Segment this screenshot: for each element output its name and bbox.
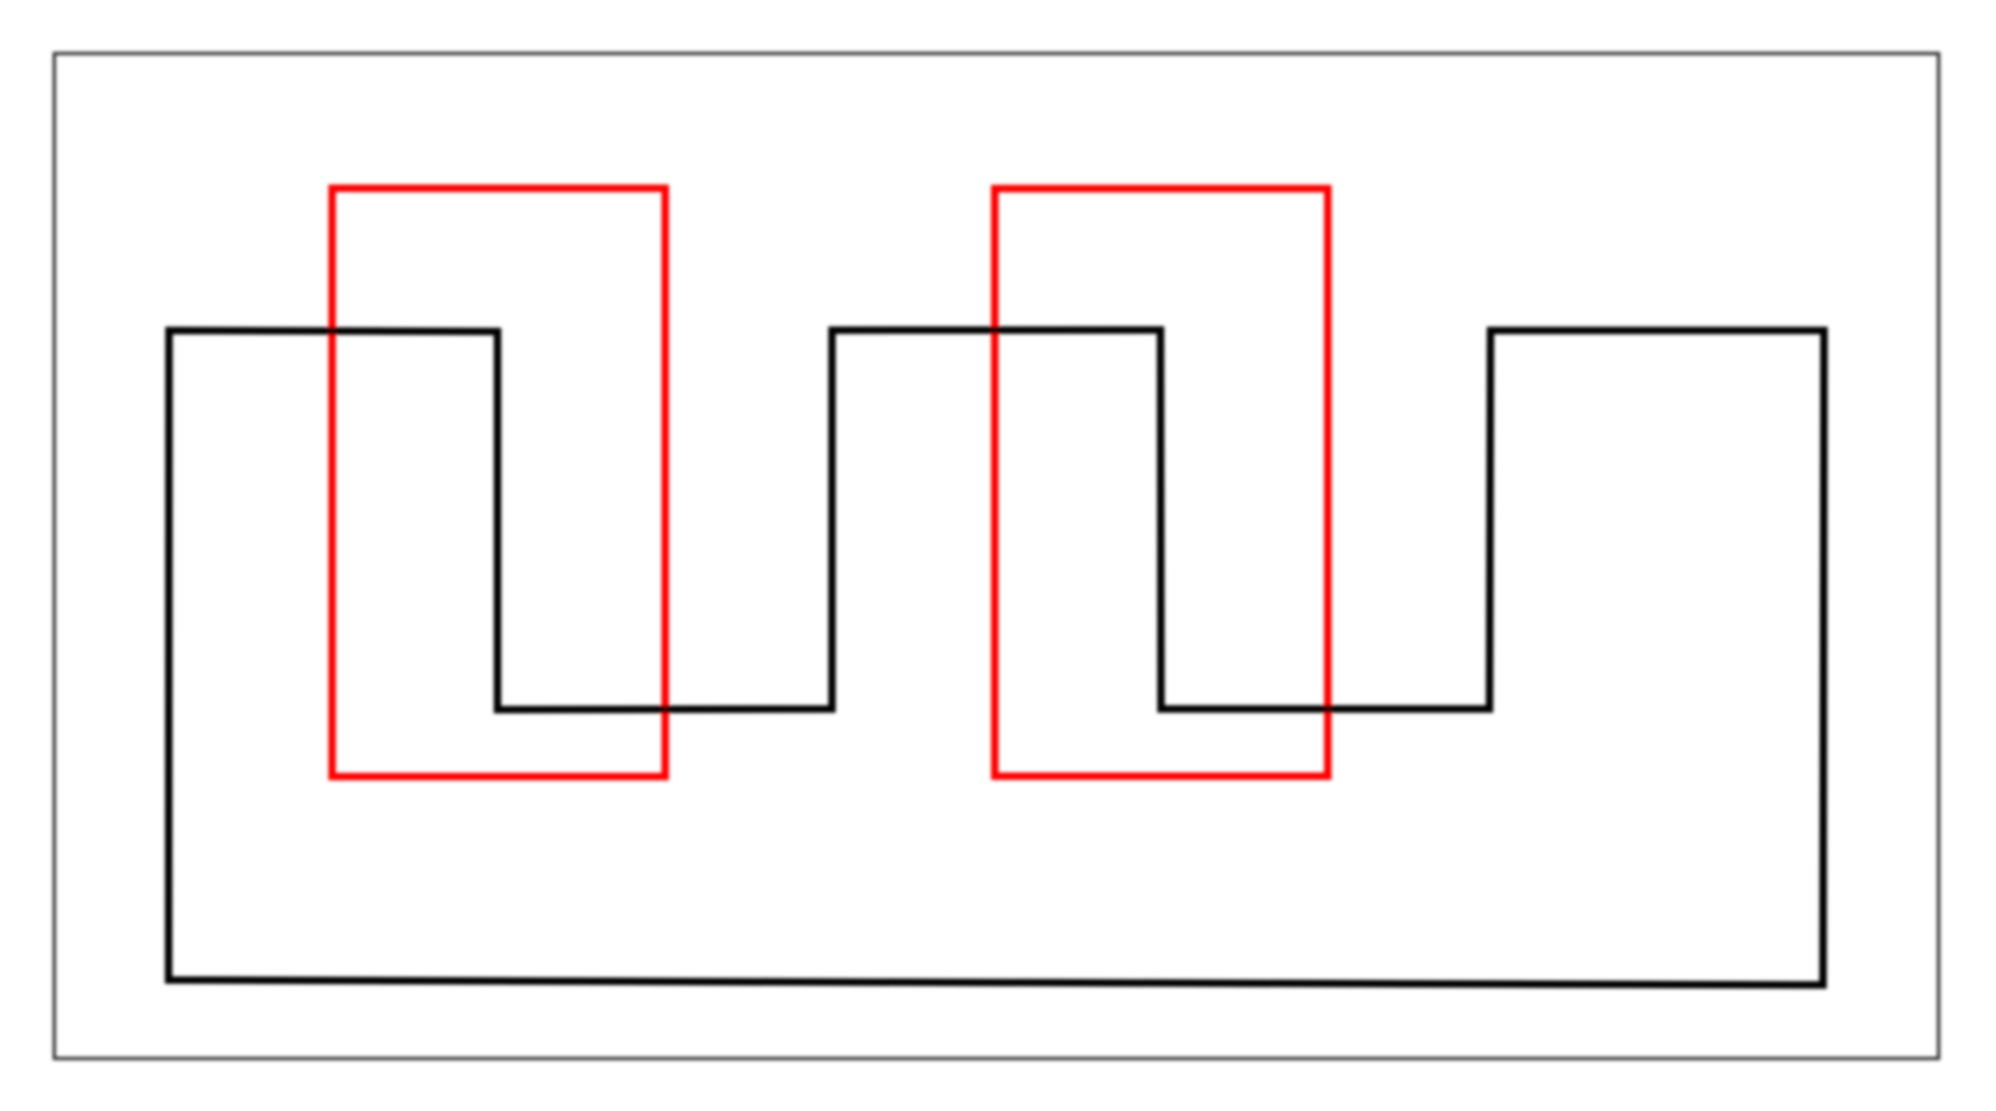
black meander outline xyxy=(169,330,1824,985)
red rectangle R2 (right) xyxy=(995,189,1328,777)
red rectangle R1 (left) xyxy=(332,188,665,776)
